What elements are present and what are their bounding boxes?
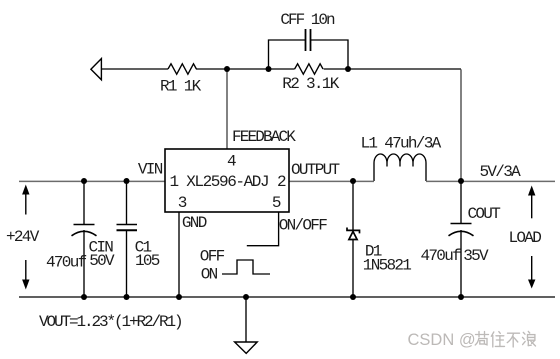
svg-text:1N5821: 1N5821 — [363, 257, 412, 275]
svg-text:XL2596-ADJ: XL2596-ADJ — [186, 173, 268, 191]
svg-text:VIN: VIN — [138, 161, 163, 179]
svg-text:5V/3A: 5V/3A — [480, 163, 522, 181]
svg-text:470uf: 470uf — [46, 254, 87, 272]
svg-text:105: 105 — [135, 252, 160, 270]
svg-text:50V: 50V — [89, 252, 115, 270]
svg-text:CFF 10n: CFF 10n — [280, 11, 335, 29]
svg-text:COUT: COUT — [468, 205, 501, 223]
svg-text:35V: 35V — [463, 247, 489, 265]
svg-text:VOUT=1.23*(1+R2/R1): VOUT=1.23*(1+R2/R1) — [39, 313, 182, 331]
svg-text:ON/OFF: ON/OFF — [279, 217, 328, 235]
svg-text:CSDN @: CSDN @ — [408, 331, 476, 349]
svg-text:4: 4 — [227, 152, 236, 170]
svg-text:+24V: +24V — [6, 228, 40, 246]
svg-text:ON: ON — [201, 266, 218, 284]
svg-text:470uf: 470uf — [421, 247, 462, 265]
svg-text:3: 3 — [178, 194, 187, 212]
svg-text:5: 5 — [272, 194, 281, 212]
svg-text:LOAD: LOAD — [509, 229, 542, 247]
svg-text:L1 47uh/3A: L1 47uh/3A — [361, 135, 442, 153]
svg-text:FEEDBACK: FEEDBACK — [232, 128, 296, 146]
svg-text:2: 2 — [277, 173, 286, 191]
svg-text:1: 1 — [170, 173, 179, 191]
svg-text:OFF: OFF — [200, 248, 225, 266]
svg-text:GND: GND — [182, 214, 207, 232]
svg-text:R2 3.1K: R2 3.1K — [282, 75, 339, 93]
svg-text:R1 1K: R1 1K — [160, 78, 202, 96]
svg-text:OUTPUT: OUTPUT — [291, 161, 340, 179]
